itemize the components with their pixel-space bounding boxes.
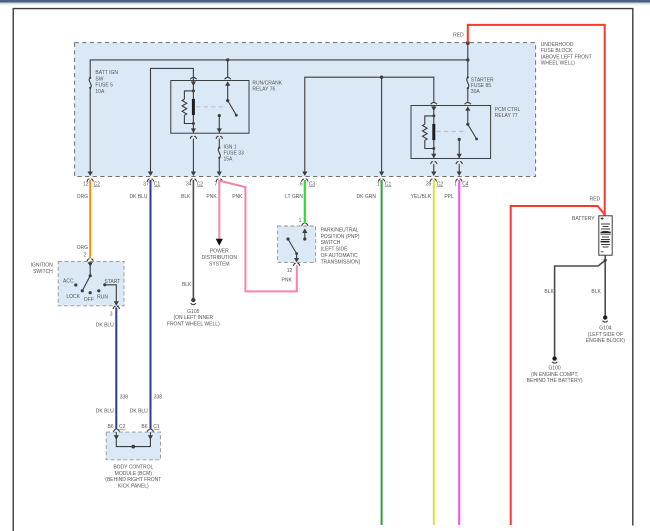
wire BLK: battery negative over to G100 <box>555 260 606 356</box>
relay 76 coil output arrow <box>191 128 196 133</box>
svg-text:(LEFT SIDE: (LEFT SIDE <box>321 247 349 253</box>
BCM label <box>105 464 161 489</box>
svg-text:FUSE 5: FUSE 5 <box>95 83 113 89</box>
wire: fuse F5 to pin 12 C2 <box>88 88 93 176</box>
svg-text:C1: C1 <box>153 424 160 430</box>
wire BLK: battery negative down to G104 <box>604 255 606 315</box>
BCM pin B6 C2 <box>107 424 125 432</box>
wire PNK: pin 7 branch to power distribution arrow <box>218 180 220 239</box>
wire: starter fuse feed <box>467 43 469 77</box>
fuse F5 value label <box>95 70 118 95</box>
RED wire label (battery) <box>590 197 601 203</box>
node: red feed junction on fuse block border <box>466 41 470 45</box>
svg-text:BODY CONTROL: BODY CONTROL <box>113 464 153 470</box>
connector cup: relay 77 switch bottom <box>456 162 462 164</box>
pin 34 C2 <box>186 179 203 187</box>
svg-text:1: 1 <box>299 218 302 224</box>
ground G104 <box>603 315 608 322</box>
park/neutral position switch box <box>278 226 316 263</box>
connector cup: relay 77 switch top <box>465 102 471 104</box>
svg-text:(LEFT SIDE OF: (LEFT SIDE OF <box>588 332 623 338</box>
svg-text:RELAY 77: RELAY 77 <box>495 113 518 119</box>
svg-text:1: 1 <box>454 181 457 187</box>
connector cup: relay 77 coil top <box>431 102 437 104</box>
wire BLK: pin 34 C2 to ground G105 <box>192 180 194 298</box>
PNP pin 1 <box>299 218 308 226</box>
wire: relay 76 coil to pin 34 C2 <box>191 139 196 176</box>
svg-text:BLK: BLK <box>591 289 601 295</box>
svg-text:ORG: ORG <box>77 245 89 251</box>
svg-text:BEHIND THE BATTERY): BEHIND THE BATTERY) <box>527 378 583 384</box>
relay 77 label <box>495 107 521 119</box>
svg-text:DK BLU: DK BLU <box>96 322 114 328</box>
svg-text:RUN: RUN <box>97 294 108 300</box>
mechanical link (dashed) relay 76 <box>196 106 226 108</box>
pin 7 <box>215 179 223 187</box>
BLK label at G105 <box>182 282 192 288</box>
wire DK GRN: pin 1 C1 down off page <box>381 180 383 525</box>
power distribution system arrow <box>216 239 223 246</box>
svg-text:LT GRN: LT GRN <box>285 194 303 200</box>
svg-text:C1: C1 <box>154 181 161 187</box>
svg-text:OFF: OFF <box>84 297 94 303</box>
svg-text:BATTERY: BATTERY <box>572 216 595 222</box>
pin 1 C4 <box>454 179 469 187</box>
svg-text:(ABOVE LEFT FRONT: (ABOVE LEFT FRONT <box>541 54 592 60</box>
svg-text:(BEHIND RIGHT FRONT: (BEHIND RIGHT FRONT <box>105 477 161 483</box>
battery <box>599 216 612 255</box>
wire: fuse 33 to pin 7 <box>217 158 222 176</box>
svg-text:7: 7 <box>215 181 218 187</box>
ignition switch pivot <box>89 274 92 277</box>
PPL wire label <box>444 194 454 200</box>
ORG wire label (upper) <box>77 194 89 200</box>
svg-text:G105: G105 <box>187 309 199 315</box>
svg-text:15A: 15A <box>224 157 234 163</box>
svg-text:12: 12 <box>287 268 293 274</box>
svg-text:B6: B6 <box>141 424 147 430</box>
svg-text:OF AUTOMATIC: OF AUTOMATIC <box>321 253 358 259</box>
relay 76 switch arm (open) <box>228 101 238 117</box>
ignition switch label <box>31 263 54 275</box>
junction: coil/resistor bottom <box>192 122 195 125</box>
PNP fixed contact with arrow to pin 1 <box>302 228 307 240</box>
DK GRN wire label <box>357 194 377 200</box>
svg-text:RED: RED <box>590 197 601 203</box>
svg-text:ACC: ACC <box>63 278 74 284</box>
YEL/BLK wire label <box>411 194 432 200</box>
contact LOCK <box>66 289 84 300</box>
G104 label <box>586 325 626 344</box>
svg-text:B6: B6 <box>107 424 113 430</box>
ignition switch pin 2 <box>84 253 94 262</box>
junction: bus to starter fuse feed <box>466 58 469 61</box>
pin 1 C1 <box>377 179 392 187</box>
BLK label (G104 branch) <box>591 289 601 295</box>
mechanical link (dashed) relay 77 <box>436 131 466 133</box>
underhood fuse block (dashed box) <box>75 43 536 177</box>
svg-text:SW: SW <box>95 76 103 82</box>
svg-text:39: 39 <box>426 181 432 187</box>
relay 77 coil (solenoid) <box>432 116 435 159</box>
svg-text:338: 338 <box>120 394 129 400</box>
svg-text:BLK: BLK <box>181 194 191 200</box>
BCM pin B6 C1 <box>141 424 160 432</box>
svg-text:LOCK: LOCK <box>66 294 80 300</box>
junction: bus to run/crank relay switch feed <box>226 58 229 61</box>
BATTERY label <box>572 216 595 222</box>
wire: relay 77 coil to pin 39 C2 <box>431 164 436 176</box>
fuse F5 BATT IGN SW (10A) <box>89 77 91 89</box>
svg-text:6: 6 <box>300 181 303 187</box>
LT GRN wire label <box>285 194 303 200</box>
fuse F33 IGN 1 (15A) <box>218 147 220 159</box>
svg-text:FUSE BLOCK: FUSE BLOCK <box>541 48 573 54</box>
svg-text:WHEEL WELL): WHEEL WELL) <box>541 61 576 67</box>
junction inside BCM <box>131 445 135 449</box>
wire RED: battery feed to fuse block and down right side <box>468 25 605 525</box>
svg-text:DK BLU: DK BLU <box>96 408 114 414</box>
resistor across relay 77 coil <box>423 116 434 149</box>
svg-text:12: 12 <box>83 181 89 187</box>
wire PPL: pin 1 C4 down off page <box>458 180 460 525</box>
wire: main bus from BATT IGN fuse to starter feed <box>90 60 468 78</box>
ignition switch box <box>58 261 124 305</box>
wire LT GRN: pin 6 C3 to PNP switch pin 1 <box>304 180 306 224</box>
svg-text:C2: C2 <box>437 181 444 187</box>
svg-text:DK BLU: DK BLU <box>129 194 147 200</box>
svg-text:ENGINE BLOCK): ENGINE BLOCK) <box>586 338 626 344</box>
underhood fuse block label <box>541 42 592 67</box>
svg-text:G104: G104 <box>599 325 611 331</box>
BLK label (G100 branch) <box>544 289 554 295</box>
PNK wire label (right branch) <box>232 194 243 200</box>
svg-text:ORG: ORG <box>77 194 89 200</box>
svg-text:1: 1 <box>377 181 380 187</box>
svg-text:C1: C1 <box>385 181 392 187</box>
svg-text:(ON LEFT INNER: (ON LEFT INNER <box>173 315 213 321</box>
wire DK BLU: ignition pin 3 to BCM pin B6 C2 <box>115 308 117 430</box>
svg-text:BATT IGN: BATT IGN <box>95 70 118 76</box>
svg-text:PARK/NEUTRAL: PARK/NEUTRAL <box>321 227 359 233</box>
relay 77 coil output arrow <box>431 154 436 159</box>
relay 76 coil input arrow <box>191 81 196 91</box>
svg-text:TRANSMISSION): TRANSMISSION) <box>321 259 361 265</box>
top browser bar <box>0 0 650 6</box>
ignition switch arm to LOCK <box>82 276 90 291</box>
BCM input arrows and tie wire <box>114 432 153 447</box>
fuse F85 STARTER (30A) <box>467 76 469 89</box>
connector cup: relay 76 coil bottom <box>190 136 196 138</box>
relay 76 switch output contact <box>218 114 221 117</box>
relay 77 switch feed arrow (up) <box>465 106 470 124</box>
ignition switch pin 3 <box>110 306 120 317</box>
connector cup: relay 77 coil bottom <box>431 162 437 164</box>
relay 76 switch pivot <box>226 99 229 102</box>
PNK wire label (left branch) <box>206 194 217 200</box>
pin 37 C1 <box>143 179 160 187</box>
wire: relay 76 switch output to box bottom <box>217 116 222 133</box>
G105 label <box>167 309 220 328</box>
junction: coil/resistor top <box>192 89 195 92</box>
G100 label <box>527 365 583 384</box>
svg-text:PNK: PNK <box>206 194 217 200</box>
svg-text:DK GRN: DK GRN <box>357 194 377 200</box>
svg-text:(IN ENGINE COMPT,: (IN ENGINE COMPT, <box>531 372 579 378</box>
svg-text:34: 34 <box>186 181 192 187</box>
wire: relay 77 switch output to box bottom <box>457 139 462 158</box>
relay 76 switch feed arrow (up) <box>225 81 230 100</box>
wire: coil feed from pin 37 C1 up and over to relay 76 coil <box>148 68 194 176</box>
svg-text:BLK: BLK <box>544 289 554 295</box>
contact RUN <box>97 289 108 300</box>
svg-text:C3: C3 <box>309 181 316 187</box>
svg-text:C2: C2 <box>197 181 204 187</box>
wire: run/crank switch feed from bus <box>227 60 229 77</box>
svg-text:2: 2 <box>84 253 87 259</box>
wire: START contact to ignition pin 3 <box>105 285 119 306</box>
pin 6 C3 <box>300 179 315 187</box>
svg-text:IGNITION: IGNITION <box>31 263 54 269</box>
svg-text:MODULE (BCM): MODULE (BCM) <box>115 471 153 477</box>
RED wire label (top) <box>453 33 464 39</box>
svg-text:YEL/BLK: YEL/BLK <box>411 194 432 200</box>
BLK wire label <box>181 194 191 200</box>
svg-text:C2: C2 <box>94 181 101 187</box>
fuse F33 value label <box>224 145 245 163</box>
resistor across relay 76 coil <box>182 91 193 124</box>
svg-text:SWITCH: SWITCH <box>33 269 53 275</box>
relay 77 switch output contact <box>458 138 461 141</box>
svg-text:DISTRIBUTION: DISTRIBUTION <box>202 255 238 261</box>
relay 76 box RUN/CRANK <box>171 81 249 134</box>
fuse F85 value label <box>471 77 494 95</box>
PNP switch label <box>321 227 361 265</box>
ignition switch input arrow <box>88 261 93 275</box>
svg-text:3: 3 <box>110 311 113 317</box>
svg-text:PNK: PNK <box>232 194 243 200</box>
svg-text:C2: C2 <box>119 424 126 430</box>
relay 77 switch pivot <box>466 123 469 126</box>
svg-text:SWITCH: SWITCH <box>321 240 341 246</box>
PNK wire label (at PNP pin 12) <box>282 277 293 283</box>
svg-text:PNK: PNK <box>282 277 293 283</box>
ground G100 <box>552 356 557 363</box>
wire: BCM DK BLU circuit 338 labels <box>120 394 163 400</box>
junction at battery negative <box>604 259 607 262</box>
wire PNK: pin 7 branch to PNP switch pin 12 <box>219 181 296 292</box>
wire: fuse 85 to relay 77 switch <box>467 88 469 102</box>
svg-text:37: 37 <box>143 181 149 187</box>
svg-text:START: START <box>104 279 120 285</box>
relay 76 coil (solenoid) <box>192 91 195 133</box>
DK BLU wire label (upper) <box>129 194 147 200</box>
pin 39 C2 <box>426 179 443 187</box>
svg-text:SYSTEM: SYSTEM <box>209 261 230 267</box>
svg-text:30A: 30A <box>471 89 481 95</box>
wire: net to relay 77 coil / pins 6 C3 and 1 C1 <box>302 77 434 176</box>
svg-text:POWER: POWER <box>210 249 229 255</box>
svg-text:RED: RED <box>453 33 464 39</box>
body control module box <box>106 432 160 460</box>
wire: relay 76 switch to fuse 33 <box>218 139 220 148</box>
wire: relay 77 switch output to pin 1 C4 <box>457 164 462 176</box>
svg-text:BLK: BLK <box>182 282 192 288</box>
contact ACC <box>63 278 77 286</box>
PNP switch arm <box>288 239 298 255</box>
svg-text:FRONT WHEEL WELL): FRONT WHEEL WELL) <box>167 322 220 328</box>
relay 77 coil input arrow <box>431 106 436 116</box>
svg-text:POSITION (PNP): POSITION (PNP) <box>321 234 360 240</box>
connector cup: relay 76 switch bottom <box>216 136 222 138</box>
svg-text:UNDERHOOD: UNDERHOOD <box>541 42 574 48</box>
svg-text:C4: C4 <box>462 181 469 187</box>
contact OFF <box>84 291 94 303</box>
wire YEL/BLK: pin 39 C2 down off page <box>433 180 435 525</box>
power distribution system label <box>202 249 238 268</box>
svg-text:G100: G100 <box>548 365 560 371</box>
junction: relay 77 coil/resistor top <box>432 114 435 117</box>
svg-text:RELAY 76: RELAY 76 <box>252 87 275 93</box>
relay 76 label <box>252 81 282 93</box>
ground G105 <box>191 298 196 305</box>
wire: net77 to pin 1 C1 <box>379 77 384 176</box>
PNP output arrow to pin 12 <box>294 254 299 263</box>
junction: relay 77 coil/resistor bottom <box>432 147 435 150</box>
junction: net77 to pin 1 C1 <box>380 76 383 79</box>
relay 77 switch arm (open) <box>468 124 478 140</box>
wire DK BLU: pin 37 C1 to BCM pin B6 C1 <box>150 180 152 430</box>
connector cup: relay 76 coil top <box>190 77 196 79</box>
pin 12 C2 <box>83 179 100 187</box>
svg-text:338: 338 <box>154 394 163 400</box>
contact START <box>103 279 120 287</box>
svg-text:KICK PANEL): KICK PANEL) <box>118 484 149 490</box>
PNP switch pivot <box>286 237 289 240</box>
svg-text:10A: 10A <box>95 89 105 95</box>
relay 77 box PCM CTRL <box>411 106 491 159</box>
wire ORG: pin 12 C2 to ignition switch pin 2 <box>89 180 91 258</box>
svg-text:DK BLU: DK BLU <box>130 408 148 414</box>
DK BLU wire label (below ignition) <box>96 322 114 328</box>
PNP pin 12 <box>287 263 300 273</box>
DK BLU labels above BCM <box>96 408 148 414</box>
connector cup: relay 76 switch top <box>225 77 231 79</box>
ORG wire label (lower) <box>77 245 89 251</box>
svg-text:PPL: PPL <box>444 194 454 200</box>
